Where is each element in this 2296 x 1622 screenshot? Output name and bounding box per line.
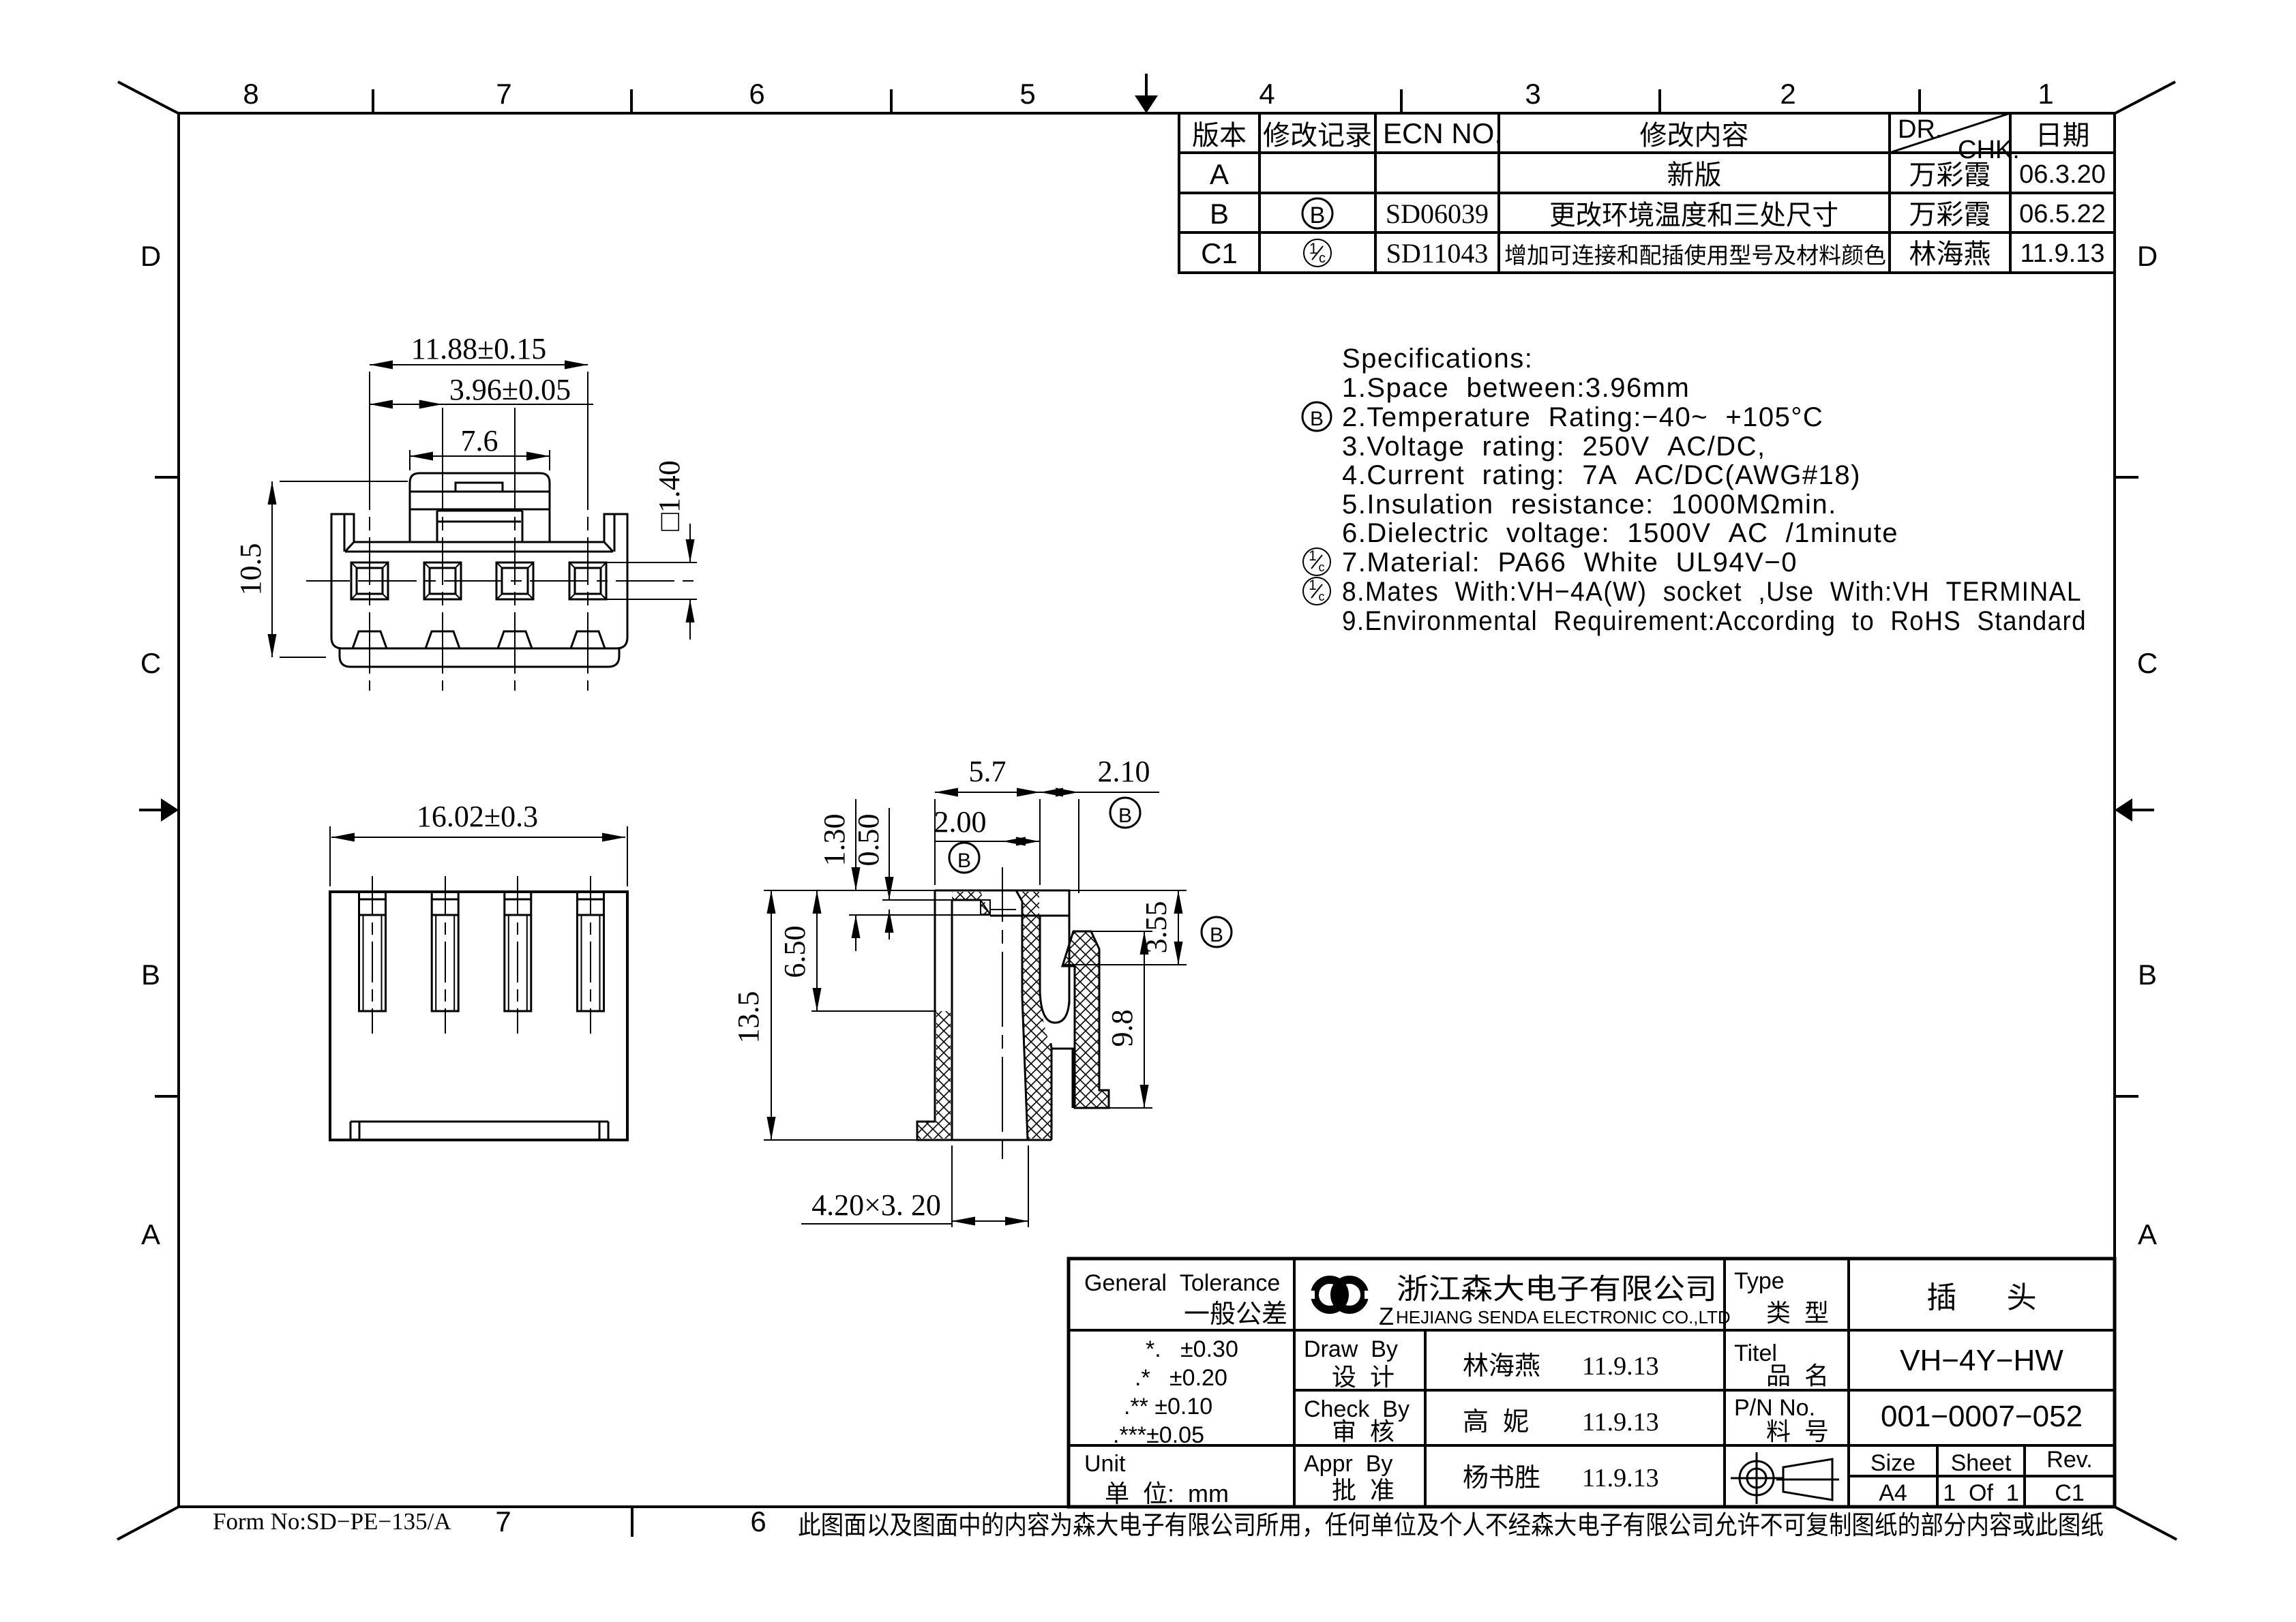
svg-text:001−0007−052: 001−0007−052 — [1881, 1400, 2083, 1433]
svg-text:A: A — [1210, 158, 1229, 190]
section outline top cap — [935, 890, 1069, 1004]
pin cavity outer square — [496, 562, 533, 599]
slot outer — [359, 892, 386, 1011]
circled 1/c spec note line8 — [1303, 577, 1330, 605]
svg-text:林海燕: 林海燕 — [1909, 239, 1991, 269]
pin square 1.40 — [430, 568, 456, 594]
pin chamfer corners — [496, 562, 502, 568]
slot centreline — [445, 876, 446, 1034]
svg-text:8: 8 — [243, 78, 258, 110]
svg-text:13.5: 13.5 — [732, 991, 765, 1044]
bottom bar — [351, 1121, 608, 1123]
slot centreline — [517, 876, 518, 1034]
svg-text:SD06039: SD06039 — [1386, 198, 1489, 229]
slot top lines — [432, 899, 458, 901]
zone ticks top border — [372, 89, 374, 113]
projection symbol cone — [1783, 1459, 1832, 1500]
circled B near 3.55 — [1202, 917, 1232, 947]
flange top — [354, 541, 604, 543]
slot centreline — [590, 876, 591, 1034]
svg-text:修改记录: 修改记录 — [1263, 121, 1372, 151]
latch line — [410, 491, 550, 493]
pin entry trapezoid — [498, 631, 532, 648]
bottom-right step — [1052, 1049, 1073, 1108]
svg-text:Z: Z — [1379, 1302, 1394, 1330]
svg-text:11.9.13: 11.9.13 — [2021, 239, 2105, 268]
pin centreline vertical — [369, 408, 370, 691]
svg-text:审 核: 审 核 — [1332, 1417, 1395, 1445]
circled B spec note — [1302, 402, 1331, 431]
corner diagonal bottom-right — [2115, 1507, 2177, 1540]
svg-text:C: C — [2137, 647, 2158, 679]
svg-text:林海燕: 林海燕 — [1463, 1352, 1540, 1381]
svg-text:General Tolerance: General Tolerance — [1084, 1270, 1280, 1296]
section centreline — [1002, 867, 1003, 1159]
svg-text:11.9.13: 11.9.13 — [1582, 1352, 1659, 1381]
svg-text:2: 2 — [1780, 78, 1795, 110]
circled B near 2.00 — [949, 843, 979, 873]
section left wall outer — [917, 890, 1052, 1140]
svg-text:A: A — [2138, 1218, 2157, 1250]
svg-text:□1.40: □1.40 — [653, 460, 686, 531]
flange bottom — [345, 551, 613, 553]
svg-text:B: B — [1118, 805, 1132, 827]
right wing — [604, 514, 627, 637]
svg-text:11.9.13: 11.9.13 — [1582, 1464, 1659, 1492]
svg-text:.* ±0.20: .* ±0.20 — [1135, 1365, 1227, 1391]
revision table diagonal DR/CHK — [1890, 113, 2010, 153]
svg-text:C1: C1 — [2055, 1480, 2084, 1506]
hatch top-left band — [952, 892, 990, 914]
svg-text:B: B — [141, 959, 160, 991]
body bottom with corners — [331, 637, 627, 648]
slot inner walls — [435, 915, 436, 1011]
pin square 1.40 — [502, 568, 528, 594]
slot top lines — [578, 899, 604, 901]
svg-text:7.Material: PA66 White UL94: 7.Material: PA66 White UL94V−0 — [1342, 547, 1798, 577]
svg-text:6.Dielectric voltage: 1500V: 6.Dielectric voltage: 1500V AC /1minute — [1342, 518, 1898, 548]
svg-text:万彩霞: 万彩霞 — [1909, 200, 1991, 230]
pin centreline vertical — [442, 408, 443, 691]
projection symbol circle — [1740, 1461, 1774, 1495]
svg-text:新版: 新版 — [1667, 160, 1722, 190]
base tray — [340, 648, 619, 667]
svg-text:D: D — [140, 240, 161, 272]
left wing — [331, 514, 354, 637]
svg-text:类 型: 类 型 — [1766, 1299, 1829, 1327]
svg-text:DR.: DR. — [1898, 115, 1942, 144]
svg-text:2.10: 2.10 — [1098, 755, 1150, 788]
right wing chamfer — [604, 542, 613, 552]
svg-text:VH−4Y−HW: VH−4Y−HW — [1900, 1344, 2063, 1377]
svg-text:9.8: 9.8 — [1105, 1010, 1139, 1047]
pin entry trapezoid — [426, 631, 460, 648]
zone ticks left border — [155, 476, 179, 479]
left wing chamfer — [345, 542, 354, 552]
svg-text:.***±0.05: .***±0.05 — [1113, 1422, 1204, 1448]
revision table — [1179, 113, 2115, 273]
svg-text:杨书胜: 杨书胜 — [1463, 1464, 1540, 1492]
svg-text:此图面以及图面中的内容为森大电子有限公司所用，任何单位及个人: 此图面以及图面中的内容为森大电子有限公司所用，任何单位及个人不经森大电子有限公司… — [798, 1512, 2104, 1540]
circled B near 2.10 — [1110, 798, 1140, 828]
svg-text:3: 3 — [1525, 78, 1540, 110]
centre mark top — [1135, 95, 1158, 113]
svg-text:7: 7 — [495, 1505, 511, 1537]
svg-text:1 Of 1: 1 Of 1 — [1943, 1480, 2019, 1506]
slot inner walls — [581, 915, 582, 1011]
svg-text:6: 6 — [749, 78, 764, 110]
svg-text:C: C — [140, 647, 161, 679]
svg-text:6: 6 — [750, 1505, 766, 1537]
svg-text:5.7: 5.7 — [969, 755, 1007, 788]
size/sheet/rev sub-table — [1849, 1475, 2115, 1477]
svg-text:3.96±0.05: 3.96±0.05 — [449, 373, 571, 406]
svg-text:9.Environmental Requirement:A: 9.Environmental Requirement:According to… — [1342, 606, 2087, 636]
pin entry trapezoid — [571, 631, 605, 648]
centre mark right — [2115, 798, 2132, 822]
pin square 1.40 — [357, 568, 383, 594]
svg-text:Unit: Unit — [1084, 1451, 1126, 1477]
svg-text:设 计: 设 计 — [1332, 1363, 1395, 1391]
slot top lines — [505, 899, 531, 901]
svg-text:Appr By: Appr By — [1304, 1451, 1392, 1477]
svg-text:Type: Type — [1734, 1268, 1785, 1294]
svg-text:插 头: 插 头 — [1926, 1281, 2036, 1315]
svg-text:A: A — [141, 1218, 160, 1250]
svg-text:7.6: 7.6 — [461, 424, 498, 457]
pin cavity outer square — [424, 562, 461, 599]
latch head — [410, 473, 550, 509]
right latch arm — [1062, 931, 1109, 1108]
title block — [1069, 1259, 2115, 1507]
pin chamfer corners — [424, 562, 430, 568]
svg-text:11.9.13: 11.9.13 — [1582, 1408, 1659, 1437]
svg-text:ECN NO.: ECN NO. — [1383, 117, 1502, 149]
pin centreline horizontal — [306, 580, 696, 582]
svg-text:Specifications:: Specifications: — [1342, 344, 1533, 374]
svg-text:Size: Size — [1870, 1450, 1915, 1476]
slot top lines — [359, 899, 386, 901]
pin centreline vertical — [587, 408, 588, 691]
slot outer — [505, 892, 531, 1011]
pin square 1.40 — [575, 568, 601, 594]
svg-text:1: 1 — [2038, 78, 2053, 110]
svg-text:1: 1 — [1309, 548, 1317, 564]
svg-text:更改环境温度和三处尺寸: 更改环境温度和三处尺寸 — [1549, 200, 1838, 230]
svg-text:1: 1 — [1309, 577, 1317, 593]
svg-text:一般公差: 一般公差 — [1184, 1300, 1287, 1329]
svg-text:4: 4 — [1259, 78, 1274, 110]
pin entry trapezoid — [353, 631, 387, 648]
svg-text:B: B — [2138, 959, 2157, 991]
corner diagonal top-right — [2114, 82, 2175, 114]
svg-text:06.5.22: 06.5.22 — [2019, 200, 2106, 228]
pin cavity outer square — [569, 562, 606, 599]
svg-text:增加可连接和配插使用型号及材料颜色: 增加可连接和配插使用型号及材料颜色 — [1504, 243, 1886, 268]
svg-text:10.5: 10.5 — [234, 543, 267, 596]
svg-text:c: c — [1319, 251, 1326, 266]
svg-text:0.50: 0.50 — [852, 814, 885, 867]
svg-text:1.Space between:3.96mm: 1.Space between:3.96mm — [1342, 373, 1690, 403]
svg-text:浙江森大电子有限公司: 浙江森大电子有限公司 — [1397, 1273, 1717, 1305]
svg-text:2.00: 2.00 — [934, 805, 987, 839]
svg-text:Sheet: Sheet — [1951, 1450, 2012, 1476]
svg-text:批 准: 批 准 — [1332, 1476, 1395, 1504]
pin cavity outer square — [351, 562, 388, 599]
svg-text:版本: 版本 — [1192, 121, 1247, 151]
svg-text:1.30: 1.30 — [818, 814, 851, 867]
latch neck — [410, 509, 550, 511]
corner diagonal top-left — [118, 82, 179, 114]
slot centreline — [372, 876, 373, 1034]
pin chamfer corners — [351, 562, 357, 568]
hatch tongue — [1016, 892, 1052, 1139]
svg-text:5: 5 — [1019, 78, 1035, 110]
svg-text:D: D — [2137, 240, 2158, 272]
svg-text:8.Mates With:VH−4A(W) socket: 8.Mates With:VH−4A(W) socket ,Use With:V… — [1342, 577, 2082, 607]
svg-text:Rev.: Rev. — [2046, 1447, 2092, 1473]
svg-text:Form No:SD−PE−135/A: Form No:SD−PE−135/A — [213, 1508, 451, 1535]
zone tick bottom border — [631, 1507, 633, 1537]
bottom view body — [330, 892, 627, 1140]
section interior step lines — [952, 899, 981, 901]
svg-text:6.50: 6.50 — [778, 926, 811, 978]
svg-text:B: B — [1310, 408, 1324, 430]
svg-text:万彩霞: 万彩霞 — [1909, 160, 1991, 190]
tongue lower right edge — [1051, 1043, 1052, 1140]
svg-text:11.88±0.15: 11.88±0.15 — [411, 332, 547, 365]
arm notch line — [1062, 965, 1075, 967]
svg-text:7: 7 — [496, 78, 511, 110]
svg-text:A4: A4 — [1879, 1480, 1907, 1506]
svg-text:SD11043: SD11043 — [1386, 238, 1489, 269]
svg-text:16.02±0.3: 16.02±0.3 — [417, 800, 538, 833]
svg-text:品 名: 品 名 — [1766, 1362, 1829, 1390]
svg-text:单 位: mm: 单 位: mm — [1105, 1480, 1229, 1507]
svg-text:c: c — [1319, 590, 1325, 603]
svg-text:5.Insulation resistance: 100: 5.Insulation resistance: 1000MΩmin. — [1342, 490, 1837, 520]
interior small box — [981, 900, 990, 914]
section left wall inner — [951, 900, 953, 1140]
svg-text:4.20×3. 20: 4.20×3. 20 — [811, 1188, 941, 1222]
svg-text:修改内容: 修改内容 — [1640, 121, 1749, 151]
slot inner walls — [363, 915, 364, 1011]
svg-text:06.3.20: 06.3.20 — [2019, 160, 2106, 189]
svg-text:B: B — [1310, 202, 1326, 228]
svg-text:Draw By: Draw By — [1304, 1336, 1398, 1362]
hatch left wall — [917, 1011, 951, 1139]
svg-text:4.Current rating: 7A AC/DC(: 4.Current rating: 7A AC/DC(AWG#18) — [1342, 460, 1861, 490]
centre mark left — [161, 798, 179, 822]
svg-text:B: B — [1210, 198, 1229, 230]
svg-text:.** ±0.10: .** ±0.10 — [1124, 1394, 1212, 1420]
company logo — [1309, 1280, 1370, 1310]
latch window — [456, 483, 503, 492]
svg-text:2.Temperature Rating:−40~ +1: 2.Temperature Rating:−40~ +105°C — [1342, 402, 1823, 432]
section U-notch curve — [1040, 916, 1069, 1023]
border frame — [179, 113, 2115, 1507]
svg-text:高 妮: 高 妮 — [1463, 1408, 1529, 1437]
svg-text:B: B — [957, 850, 971, 872]
svg-text:*. ±0.30: *. ±0.30 — [1146, 1336, 1238, 1362]
pin centreline vertical — [514, 408, 516, 691]
zone ticks right border — [2115, 476, 2138, 479]
slot outer — [432, 892, 458, 1011]
latch inner block — [437, 510, 522, 512]
svg-text:C1: C1 — [1201, 237, 1238, 269]
svg-text:日期: 日期 — [2036, 121, 2090, 151]
svg-text:3.Voltage rating: 250V AC/D: 3.Voltage rating: 250V AC/DC, — [1342, 432, 1766, 462]
svg-text:HEJIANG SENDA ELECTRONIC CO.,L: HEJIANG SENDA ELECTRONIC CO.,LTD — [1396, 1307, 1731, 1327]
svg-text:B: B — [1210, 924, 1223, 946]
svg-text:c: c — [1319, 560, 1325, 574]
corner diagonal bottom-left — [117, 1507, 179, 1540]
slot inner walls — [508, 915, 509, 1011]
pin chamfer corners — [569, 562, 575, 568]
slot outer — [578, 892, 604, 1011]
section pocket seat — [990, 915, 1069, 917]
circled 1/c spec note line7 — [1303, 548, 1330, 575]
svg-text:料 号: 料 号 — [1766, 1417, 1829, 1445]
tongue left edge — [1016, 890, 1028, 1140]
